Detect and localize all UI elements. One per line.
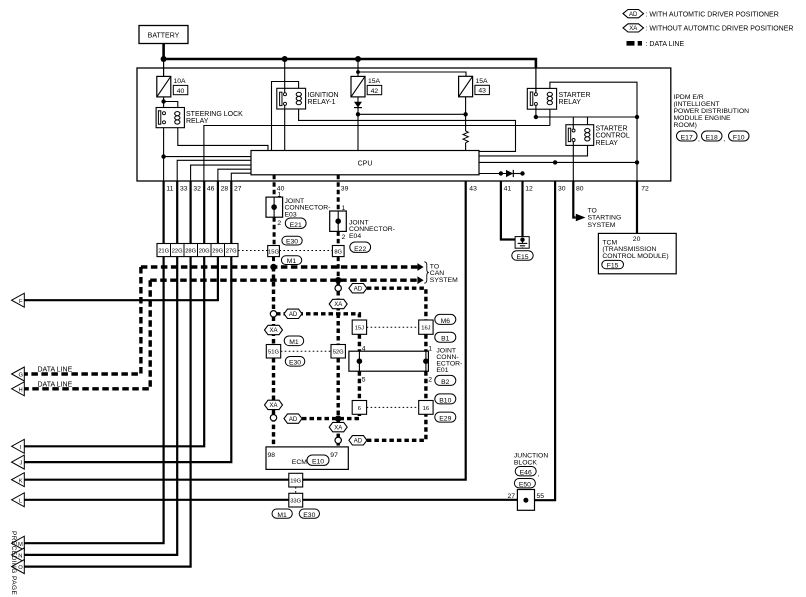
- svg-text:16: 16: [423, 406, 429, 412]
- connector E17: [677, 131, 701, 143]
- arrow L: [12, 493, 25, 507]
- svg-text:6: 6: [358, 406, 361, 412]
- svg-text:B10: B10: [439, 397, 451, 404]
- wire fuse40 feed: [163, 59, 165, 76]
- svg-text:30: 30: [558, 186, 566, 193]
- wire right low AD branch dashed: [367, 414, 426, 440]
- svg-text:15J: 15J: [355, 326, 364, 332]
- svg-text:RELAY-1: RELAY-1: [308, 99, 336, 106]
- fuse 15A 43: [459, 76, 490, 97]
- wire 40 dashed to E03: [273, 175, 276, 197]
- svg-text:XA: XA: [269, 403, 277, 409]
- svg-text:16J: 16J: [421, 326, 430, 332]
- svg-text:,: ,: [698, 136, 700, 143]
- connector E30 low: [299, 509, 319, 519]
- svg-text:: WITH AUTOMTIC DRIVER POSITIO: : WITH AUTOMTIC DRIVER POSITIONER: [646, 11, 779, 18]
- hexagon AD left low: [284, 414, 302, 423]
- svg-text:K: K: [19, 478, 23, 484]
- svg-text:27G: 27G: [226, 248, 237, 254]
- svg-text:40: 40: [177, 88, 185, 95]
- wire fuse40 to steering relay: [163, 97, 165, 108]
- wire main bus: [164, 59, 536, 69]
- node circle right top: [335, 285, 341, 291]
- terminal 8G: [332, 246, 344, 257]
- connector F15: [602, 260, 624, 269]
- wire E03 to 15G dashed: [273, 217, 276, 245]
- wire CPU left pin27: [231, 173, 251, 181]
- wire left AD branch dashed: [276, 314, 359, 320]
- svg-text:F: F: [19, 299, 23, 305]
- wire 72 to TCM: [636, 181, 638, 233]
- battery: [139, 26, 188, 44]
- joint connector E03: [266, 197, 330, 218]
- fuse 10A 40: [157, 76, 188, 97]
- wire CPU right diode line: [479, 173, 506, 175]
- connector B2: [435, 375, 456, 385]
- terminal 15J: [352, 320, 366, 334]
- wire 28 to 29G: [217, 181, 219, 243]
- svg-text:E22: E22: [354, 246, 366, 253]
- svg-text:ROOM): ROOM): [674, 122, 697, 129]
- svg-text:XA: XA: [629, 26, 637, 32]
- svg-text:E01: E01: [436, 367, 448, 374]
- svg-text:22G: 22G: [172, 248, 183, 254]
- wire battery drop: [162, 44, 165, 60]
- svg-text:2: 2: [428, 377, 432, 384]
- connector F10: [729, 131, 750, 142]
- svg-text:O: O: [18, 565, 23, 571]
- ground E15: [515, 237, 529, 249]
- wire E01 to 16 dashed: [424, 371, 427, 400]
- svg-text:BLOCK: BLOCK: [514, 460, 538, 467]
- wire 33G to junction block: [303, 499, 518, 501]
- svg-text:JUNCTION: JUNCTION: [514, 453, 548, 460]
- svg-text:51G: 51G: [268, 350, 279, 356]
- svg-text:: WITHOUT AUTOMTIC DRIVER POSI: : WITHOUT AUTOMTIC DRIVER POSITIONER: [646, 26, 794, 33]
- wire steering coil to CPU: [178, 128, 268, 151]
- CPU box U1: [251, 151, 479, 175]
- terminal 6: [352, 401, 366, 415]
- connector E30 mid: [285, 357, 305, 367]
- svg-text:15G: 15G: [268, 249, 279, 255]
- svg-text:E21: E21: [290, 222, 302, 229]
- TCM box: [598, 233, 676, 273]
- svg-text:97: 97: [330, 452, 338, 459]
- wire CPU left pin32: [191, 165, 251, 181]
- node right bus 117: [635, 115, 639, 119]
- wire CPU right to right bus: [479, 161, 637, 163]
- hexagon AD left top: [284, 309, 302, 318]
- svg-text:27: 27: [508, 493, 516, 500]
- dotted link 6-16: [367, 406, 419, 408]
- joint connector E04: [330, 211, 395, 240]
- wire N to 22G: [24, 257, 177, 555]
- svg-text:PRECEDING PAGE: PRECEDING PAGE: [10, 531, 17, 596]
- svg-text:AD: AD: [629, 12, 638, 18]
- node bus-fuse42: [355, 56, 361, 62]
- wire M to 21G: [24, 257, 163, 544]
- joint connector E01: [349, 351, 429, 371]
- svg-text:33G: 33G: [290, 499, 301, 505]
- starter control relay: [566, 125, 630, 147]
- svg-text:IPDM E/R: IPDM E/R: [674, 94, 704, 101]
- svg-text:M1: M1: [277, 512, 287, 519]
- wire E04 to 8G dashed: [337, 231, 340, 245]
- wire diode node to fuse43 node: [358, 113, 466, 115]
- svg-text:15A: 15A: [368, 78, 381, 85]
- terminal 19G: [289, 473, 303, 487]
- svg-text:BATTERY: BATTERY: [148, 32, 180, 39]
- wire E01 to 6 dashed: [358, 371, 361, 400]
- wire 11 to 21G: [163, 181, 165, 243]
- svg-text:28G: 28G: [185, 248, 196, 254]
- ECM box: [266, 447, 348, 470]
- connector row 21G-27G: [157, 244, 238, 257]
- node right bus 162: [635, 160, 639, 164]
- svg-text:E10: E10: [312, 459, 324, 466]
- connector E18: [702, 131, 726, 143]
- wire 39 dashed to E04: [337, 175, 340, 211]
- connector E10: [307, 455, 329, 466]
- wire control coil bottom to CPU: [479, 145, 588, 156]
- wire 80 to starting system: [573, 181, 576, 217]
- svg-text:,: ,: [538, 471, 540, 478]
- svg-text:RELAY: RELAY: [559, 99, 582, 106]
- connector E22: [350, 242, 371, 253]
- resistor R1: [463, 131, 468, 143]
- arrow CAN1: [417, 263, 423, 271]
- svg-text:28: 28: [221, 186, 229, 193]
- svg-text:SYSTEM: SYSTEM: [588, 222, 616, 229]
- wire ignition contact to CPU: [284, 105, 286, 150]
- svg-text:B1: B1: [441, 336, 450, 343]
- legend hexagon XA: [623, 24, 644, 32]
- node fuse40 out: [161, 99, 165, 103]
- wire starter out to right bus: [536, 116, 637, 118]
- wire 16J to E01 dashed: [424, 334, 427, 351]
- svg-text:42: 42: [371, 88, 379, 95]
- svg-text:12: 12: [525, 186, 533, 193]
- node circle left low: [270, 415, 276, 421]
- svg-text:XA: XA: [269, 328, 277, 334]
- arrow M: [12, 536, 25, 550]
- fuse 15A 42: [351, 76, 382, 97]
- wire starter contact bottom: [535, 106, 537, 118]
- wire 30 to junction block: [535, 181, 556, 500]
- svg-text:F15: F15: [607, 262, 619, 269]
- svg-text:AD: AD: [289, 312, 298, 318]
- svg-text:POWER DISTRIBUTION: POWER DISTRIBUTION: [674, 108, 750, 115]
- svg-text:H: H: [19, 387, 23, 393]
- svg-text:XA: XA: [334, 425, 342, 431]
- terminal 16: [419, 401, 433, 415]
- arrow I: [12, 439, 25, 453]
- svg-text:E30: E30: [286, 239, 298, 246]
- wire left low to ECM dashed: [272, 410, 275, 447]
- arrow O: [12, 560, 25, 574]
- svg-text:E18: E18: [706, 135, 718, 142]
- wire ignition coil top loop: [272, 82, 299, 151]
- svg-text:29G: 29G: [212, 248, 223, 254]
- terminal 15G: [268, 246, 280, 257]
- wire to steering relay coil: [164, 102, 178, 108]
- node 52G cross low: [335, 415, 341, 421]
- arrow H: [12, 382, 25, 396]
- wire low AD branch dashed: [302, 414, 359, 418]
- svg-text:STARTER: STARTER: [559, 92, 591, 99]
- dotted link 51G-52G: [281, 350, 331, 352]
- legend data line sample: [627, 41, 643, 46]
- svg-text:72: 72: [641, 186, 649, 193]
- wire control contact bottom pin80: [572, 142, 574, 181]
- brace to CAN system: [424, 262, 429, 283]
- connector E30: [282, 236, 302, 245]
- svg-text:10A: 10A: [174, 78, 187, 85]
- svg-text:5: 5: [362, 377, 366, 384]
- svg-text:DATA LINE: DATA LINE: [38, 367, 73, 374]
- wire control contact top: [572, 117, 574, 129]
- svg-text:J: J: [20, 461, 23, 467]
- data line CAN2: [150, 279, 417, 282]
- arrow to starting system: [576, 214, 586, 221]
- wire 12 to ground: [521, 181, 523, 238]
- terminal 52G: [331, 345, 345, 359]
- node diode out: [356, 112, 360, 116]
- svg-text:98: 98: [268, 452, 276, 459]
- svg-text:2: 2: [342, 234, 346, 241]
- wire fuse42 feed: [357, 59, 359, 76]
- node bus-fuse40: [161, 56, 167, 62]
- arrow CAN2: [417, 276, 423, 284]
- svg-text:,: ,: [724, 136, 726, 143]
- svg-text:E03: E03: [285, 211, 297, 218]
- junction block: [508, 490, 545, 511]
- wire right AD branch dashed: [367, 288, 426, 320]
- svg-text:CONTROL MODULE): CONTROL MODULE): [602, 253, 668, 260]
- wire 15G to CAN1 dashed: [272, 257, 275, 267]
- svg-text:E46: E46: [520, 469, 532, 476]
- IPDM E/R label: [674, 94, 750, 129]
- arrow F: [12, 293, 25, 307]
- wire starter coil bottom: [549, 109, 551, 125]
- connector E29: [435, 412, 456, 422]
- svg-text:G: G: [19, 373, 24, 379]
- svg-text:55: 55: [537, 493, 545, 500]
- node steering contact branch: [161, 154, 165, 158]
- svg-text:43: 43: [469, 186, 477, 193]
- hexagon XA left low: [265, 400, 283, 409]
- svg-text:STARTER: STARTER: [596, 126, 628, 133]
- node starter contact out: [534, 115, 538, 119]
- svg-text:MODULE ENGINE: MODULE ENGINE: [674, 115, 731, 122]
- wire K to 19G: [24, 479, 289, 481]
- wire J to 27G: [24, 257, 231, 463]
- starter relay: [527, 88, 590, 109]
- terminal 51G: [266, 345, 280, 359]
- node circle left top: [270, 311, 276, 317]
- svg-text:ECM: ECM: [292, 459, 307, 466]
- wire 27 to 27G: [230, 181, 232, 243]
- svg-text:E04: E04: [349, 233, 361, 240]
- svg-text:CPU: CPU: [358, 161, 373, 168]
- arrow J: [12, 455, 25, 469]
- svg-text:E15: E15: [516, 254, 528, 261]
- ignition relay-1: [277, 88, 339, 109]
- svg-text:DATA LINE: DATA LINE: [38, 381, 73, 388]
- svg-text:80: 80: [576, 186, 584, 193]
- wire 8G to CAN2 dashed: [337, 257, 340, 281]
- svg-text:19G: 19G: [290, 479, 301, 485]
- connector B10: [435, 394, 456, 404]
- wire steering contact down: [163, 128, 165, 182]
- connector E21: [285, 218, 306, 229]
- wire 46 to 20G: [203, 181, 205, 243]
- hexagon XA right low: [329, 422, 347, 431]
- svg-text:32: 32: [193, 186, 201, 193]
- wire starter coil top to right bus: [550, 82, 637, 181]
- steering lock relay: [156, 108, 243, 128]
- label to CAN system: [430, 263, 458, 284]
- svg-text:27: 27: [234, 186, 242, 193]
- svg-text:N: N: [18, 554, 22, 560]
- svg-text:52G: 52G: [333, 350, 344, 356]
- pin labels row: [166, 186, 649, 193]
- wire long line y125 to pin46: [204, 126, 550, 182]
- svg-text:E17: E17: [681, 135, 693, 142]
- wire CPU left pin33: [177, 160, 251, 181]
- node pin30 tap: [553, 160, 557, 164]
- wire control coil top: [587, 117, 589, 125]
- wire O to 28G: [24, 257, 190, 567]
- svg-text:E30: E30: [303, 512, 315, 519]
- dotted link 15J-16J: [367, 326, 419, 328]
- svg-text:SYSTEM: SYSTEM: [430, 277, 458, 284]
- terminal 33G: [289, 493, 303, 507]
- svg-text:41: 41: [504, 186, 512, 193]
- wire left col to circle dashed: [272, 267, 275, 311]
- node fuse43 out: [463, 112, 467, 116]
- node bus-ignition: [282, 56, 288, 62]
- hexagon XA right: [329, 299, 347, 308]
- wire right low dashed: [337, 419, 340, 447]
- connector M1: [281, 256, 301, 265]
- wire starter contact top: [535, 68, 537, 93]
- wire I to 20G: [24, 257, 204, 447]
- wire 43 down: [303, 181, 466, 480]
- wire H dropper dashed: [24, 280, 150, 389]
- wire 15J to E01 dashed: [358, 334, 361, 351]
- svg-text:: DATA LINE: : DATA LINE: [646, 41, 685, 48]
- wire split to fuse43: [358, 72, 466, 76]
- connector M1 low: [272, 509, 292, 519]
- svg-text:20: 20: [633, 236, 641, 243]
- connector E50: [514, 479, 535, 489]
- hexagon XA left: [265, 325, 283, 334]
- legend hexagon AD: [623, 10, 644, 18]
- wire right col circle dashed: [337, 280, 340, 286]
- svg-text:AD: AD: [354, 439, 363, 445]
- wire CPU left pin28: [218, 169, 251, 181]
- svg-text:AD: AD: [354, 286, 363, 292]
- svg-text:STEERING LOCK: STEERING LOCK: [186, 111, 243, 118]
- hexagon AD right top: [349, 284, 367, 293]
- label junction block: [514, 453, 548, 467]
- svg-text:XA: XA: [334, 302, 342, 308]
- svg-text:IGNITION: IGNITION: [308, 92, 339, 99]
- wire L to 33G: [24, 499, 289, 501]
- terminal 16J: [419, 320, 433, 334]
- svg-text:33: 33: [180, 186, 188, 193]
- svg-text:21G: 21G: [158, 248, 169, 254]
- svg-text:E29: E29: [439, 416, 451, 423]
- node CAN1 15G: [270, 264, 276, 270]
- node pin12: [520, 171, 524, 175]
- connector E15: [512, 251, 533, 261]
- svg-text:RELAY: RELAY: [596, 140, 619, 147]
- svg-text:8G: 8G: [334, 249, 342, 255]
- svg-text:(INTELLIGENT: (INTELLIGENT: [674, 101, 720, 108]
- diode D1 under fuse42: [354, 97, 362, 151]
- svg-text:TO: TO: [588, 208, 597, 215]
- wire ignition coil bottom to CPU right: [299, 109, 516, 151]
- wire ignition contact top: [284, 59, 286, 93]
- arrow K: [12, 473, 25, 487]
- arrow N: [12, 548, 25, 562]
- label to starting system: [588, 208, 622, 229]
- dotted link 15G to 8G: [279, 250, 332, 252]
- svg-text:46: 46: [207, 186, 215, 193]
- wire right col XA dashed: [337, 291, 340, 345]
- diode D2: [506, 170, 523, 177]
- wire fuse43 down: [465, 97, 467, 131]
- wire left col XA dashed: [272, 317, 275, 346]
- svg-text:E30: E30: [289, 360, 301, 367]
- svg-text:M1: M1: [289, 339, 299, 346]
- svg-text:F10: F10: [733, 135, 745, 142]
- node fuse42-43 split: [356, 70, 360, 74]
- svg-text:M6: M6: [441, 318, 451, 325]
- wire resistor to CPU: [465, 143, 467, 151]
- svg-text:M1: M1: [287, 258, 297, 265]
- svg-text:20G: 20G: [199, 248, 210, 254]
- wire G dropper dashed: [24, 267, 141, 374]
- svg-text:AD: AD: [289, 417, 298, 423]
- wire 52G down dashed: [337, 358, 340, 419]
- node CAN2 8G: [335, 277, 341, 283]
- wire F to 29G: [24, 257, 218, 301]
- wire to CPU pin 11: [164, 156, 251, 158]
- connector M6: [435, 314, 456, 324]
- svg-text:15A: 15A: [476, 78, 489, 85]
- svg-text:B2: B2: [441, 379, 450, 386]
- svg-text:CONTROL: CONTROL: [596, 133, 630, 140]
- data line CAN1: [141, 265, 418, 268]
- svg-text:2: 2: [277, 220, 281, 227]
- wire 33 to 22G: [176, 181, 178, 243]
- dotted link row to 15G: [238, 250, 268, 252]
- label joint connector E01: [436, 348, 462, 375]
- svg-text:E50: E50: [519, 481, 531, 488]
- arrow G: [12, 367, 25, 381]
- svg-text:STARTING: STARTING: [588, 215, 622, 222]
- svg-text:11: 11: [166, 186, 173, 193]
- wire 51G down dashed: [272, 358, 275, 400]
- connector M1 mid: [284, 336, 304, 346]
- svg-text:RELAY: RELAY: [186, 118, 209, 125]
- hexagon AD right low: [349, 436, 367, 445]
- node pin41: [499, 171, 503, 175]
- wire 41 to ground: [501, 181, 521, 239]
